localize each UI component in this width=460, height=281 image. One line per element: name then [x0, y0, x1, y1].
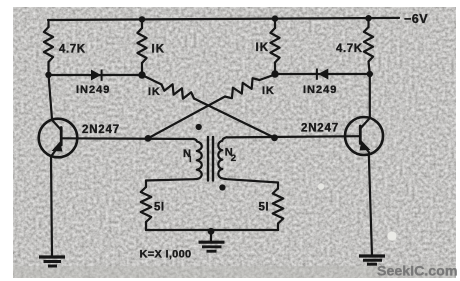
svg-text:IK: IK	[148, 86, 161, 98]
svg-text:IN249: IN249	[76, 84, 110, 96]
svg-text:IK: IK	[256, 42, 270, 54]
svg-text:4.7K: 4.7K	[336, 43, 363, 55]
svg-text:SeekIC.com: SeekIC.com	[377, 264, 457, 280]
svg-text:K=X I,000: K=X I,000	[140, 249, 192, 261]
svg-text:2N247: 2N247	[82, 124, 120, 136]
svg-text:IK: IK	[262, 85, 275, 97]
svg-text:2: 2	[231, 153, 236, 164]
svg-text:IN249: IN249	[303, 84, 337, 96]
svg-text:I: I	[189, 155, 191, 164]
svg-text:2N247: 2N247	[301, 123, 339, 135]
svg-text:5I: 5I	[259, 202, 270, 214]
svg-text:4.7K: 4.7K	[59, 44, 86, 56]
svg-text:IK: IK	[152, 44, 166, 56]
svg-text:5I: 5I	[154, 202, 165, 214]
svg-text:−6V: −6V	[404, 12, 428, 26]
